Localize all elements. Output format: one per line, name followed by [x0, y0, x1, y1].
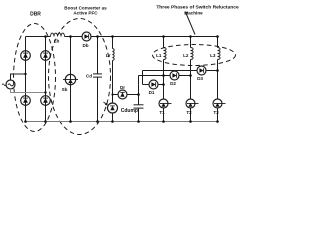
diode Db	[82, 32, 91, 41]
junction dots	[24, 35, 219, 123]
region ellipse DBR	[14, 24, 56, 132]
svg-text:T3: T3	[213, 110, 219, 115]
ac source Vs	[6, 80, 15, 89]
inductor L3	[218, 48, 221, 60]
wire DBR right leg	[45, 37, 47, 122]
svg-text:Cdump: Cdump	[121, 108, 138, 114]
diode D1	[149, 80, 158, 89]
wire dump tie vertical	[142, 71, 144, 85]
diode bridge D upper-left	[21, 51, 31, 61]
svg-text:L1: L1	[156, 53, 162, 58]
diode bridge D lower-right	[41, 96, 51, 106]
svg-text:Cd: Cd	[86, 74, 92, 79]
wire DBR left leg	[25, 37, 27, 122]
wire phase2 leg	[190, 37, 192, 48]
wire dump bus y70	[143, 70, 198, 72]
ac source tick mark	[2, 84, 6, 86]
svg-text:D3: D3	[197, 76, 203, 81]
svg-text:Lb: Lb	[54, 39, 60, 44]
svg-text:Machine: Machine	[184, 11, 203, 16]
svg-text:L2: L2	[183, 53, 189, 58]
svg-text:T1: T1	[159, 110, 165, 115]
wire bottom rail	[26, 121, 218, 123]
wire Cdump leg	[138, 76, 140, 105]
capacitor Cd leg wire	[97, 37, 99, 74]
region ellipse SRM windings	[153, 45, 236, 66]
wire dump bus y75	[139, 75, 171, 77]
switch Tr	[108, 103, 118, 113]
wire Dr branch	[113, 94, 119, 96]
switch T2	[186, 99, 199, 108]
svg-text:DBR: DBR	[30, 12, 41, 18]
wire ac bottom terminal	[11, 89, 46, 93]
diode Dr	[118, 90, 127, 99]
inductor L1	[164, 48, 167, 60]
inductor L2	[191, 48, 194, 60]
diode bridge D upper-right	[41, 51, 51, 61]
svg-text:T2: T2	[186, 110, 192, 115]
diode D2	[170, 71, 179, 80]
diode bridge D lower-left	[21, 96, 31, 106]
switch Sb	[63, 74, 78, 84]
capacitor Cd	[93, 74, 102, 77]
wire D1 branch	[143, 84, 150, 86]
svg-text:Lr: Lr	[106, 53, 111, 58]
inductor Lb	[51, 33, 65, 36]
inductor Lr leg wire	[112, 37, 114, 49]
region ellipse Boost PFC	[49, 19, 111, 135]
svg-text:Dr: Dr	[120, 85, 125, 90]
wire top rail	[26, 36, 51, 38]
svg-text:D1: D1	[149, 90, 155, 95]
label arrow to windings	[186, 12, 196, 35]
switch Sb leg wire	[70, 37, 72, 122]
inductor Lr	[113, 49, 115, 61]
wire phase3 leg	[217, 37, 219, 48]
switch T1	[159, 99, 172, 108]
svg-text:L3: L3	[210, 53, 216, 58]
diode D3	[197, 66, 206, 75]
wire phase1 leg	[163, 37, 165, 48]
capacitor Cdump	[134, 105, 144, 108]
wire ac top terminal	[11, 74, 26, 80]
svg-text:Db: Db	[82, 43, 88, 48]
svg-text:D2: D2	[170, 81, 176, 86]
switch T3	[213, 99, 226, 108]
svg-text:Active PFC: Active PFC	[73, 11, 98, 16]
gate arrow Tr	[104, 102, 108, 105]
svg-text:Sb: Sb	[62, 87, 68, 92]
